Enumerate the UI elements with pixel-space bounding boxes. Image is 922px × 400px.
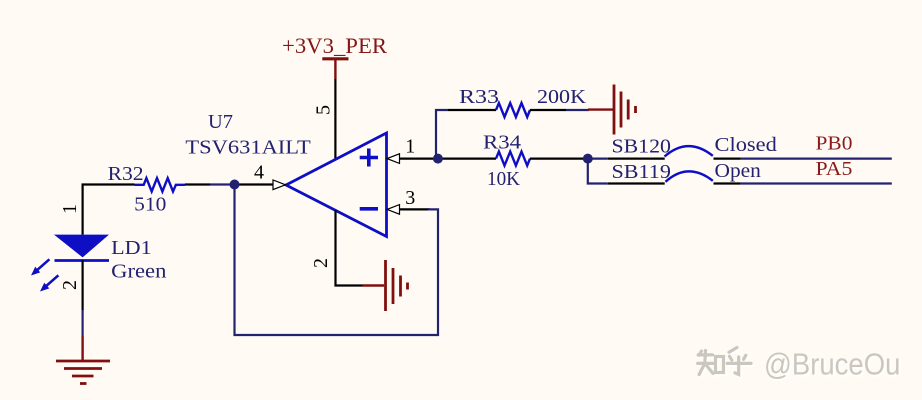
svg-text:510: 510: [134, 194, 166, 216]
resistor R32: [135, 178, 186, 191]
ground stem (R33): [588, 108, 613, 110]
svg-text:Closed: Closed: [715, 134, 777, 156]
wire R33 right pin: [530, 109, 566, 111]
pin 3 arrowhead (op-amp -): [387, 205, 400, 215]
svg-text:3: 3: [405, 187, 415, 209]
pin 1 arrowhead (op-amp +): [387, 154, 400, 164]
svg-text:5: 5: [313, 105, 335, 115]
wire R34 right pin: [530, 158, 583, 160]
svg-text:+3V3_PER: +3V3_PER: [282, 33, 387, 58]
resistor R34: [496, 152, 530, 166]
solder bridge SB120 pad left: [608, 158, 665, 160]
ground (R33) rotated: [614, 85, 636, 135]
wire R32 to junction: [210, 183, 235, 185]
svg-text:SB119: SB119: [612, 161, 671, 183]
svg-text:4: 4: [254, 162, 264, 184]
wire R33 left pin: [448, 109, 496, 111]
wire to PA5: [741, 182, 892, 184]
pin 4 arrowhead: [273, 180, 286, 190]
svg-text:R34: R34: [483, 131, 521, 153]
solder bridge SB119 pad right: [714, 182, 741, 184]
wire to ground: [81, 310, 83, 336]
wire R32 to junction (pin part): [185, 183, 210, 185]
ground stem (LED): [81, 336, 83, 361]
watermark: [698, 347, 903, 384]
solder bridge SB120 pad right: [714, 158, 741, 160]
wire op-amp pin 5: [334, 79, 336, 160]
svg-text:LD1: LD1: [111, 237, 152, 259]
wire op-amp pin 2: [336, 210, 363, 285]
wire junction down to SB119 row: [588, 159, 608, 184]
svg-text:1: 1: [405, 135, 415, 157]
wire op-amp pin 1: [400, 158, 438, 160]
svg-text:R32: R32: [108, 163, 144, 185]
op-amp U7 triangle: [286, 133, 387, 237]
solder bridge SB119 pad left: [608, 182, 665, 184]
LED emission arrow 2: [37, 272, 60, 294]
svg-text:200K: 200K: [537, 86, 587, 108]
junction SB node: [583, 154, 593, 164]
LED LD1 cathode bar: [55, 259, 110, 262]
ground (LED): [56, 361, 110, 384]
svg-text:Open: Open: [715, 160, 761, 182]
junction pin1 node: [433, 154, 443, 164]
junction output node: [230, 180, 240, 190]
wire to PB0: [741, 158, 892, 160]
wire op-amp pin 4 output: [235, 183, 274, 185]
wire LED pin 2: [81, 261, 83, 311]
svg-text:PB0: PB0: [816, 133, 853, 155]
svg-text:2: 2: [59, 280, 81, 290]
wire junction to SB120: [588, 158, 608, 160]
LED emission arrow 1: [28, 256, 51, 278]
resistor R33: [496, 103, 530, 117]
svg-text:SB120: SB120: [612, 136, 671, 158]
wire R34 left pin: [438, 158, 496, 160]
svg-text:1: 1: [59, 204, 81, 214]
wire R33 to ground: [566, 109, 589, 111]
ground stem (pin 2): [363, 284, 385, 286]
svg-text:PA5: PA5: [816, 158, 853, 180]
svg-text:U7: U7: [208, 111, 233, 133]
solder bridge SB120 arc: [665, 146, 713, 156]
svg-text:@BruceOu: @BruceOu: [764, 347, 900, 382]
op-amp - input symbol: [360, 207, 378, 211]
svg-text:10K: 10K: [487, 168, 521, 190]
wire R33 branch up: [436, 110, 448, 159]
solder bridge SB119 arc: [666, 171, 713, 181]
feedback wire pin3 to output: [235, 185, 439, 336]
svg-text:R33: R33: [459, 86, 499, 108]
svg-text:Green: Green: [111, 260, 166, 282]
wire resistor R32 left corner + LED pin1: [83, 185, 135, 235]
power bar +3V3_PER: [322, 59, 348, 79]
ground (pin 2) rotated: [386, 260, 408, 311]
wire op-amp pin 3: [400, 208, 430, 210]
LED LD1 body: [54, 235, 109, 258]
svg-text:TSV631AILT: TSV631AILT: [185, 137, 310, 159]
op-amp + input symbol: [360, 149, 378, 167]
svg-text:2: 2: [310, 258, 332, 268]
